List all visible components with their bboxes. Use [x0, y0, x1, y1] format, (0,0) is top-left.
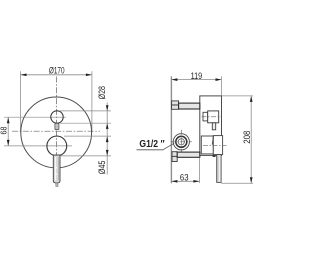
lever tip	[56, 183, 58, 187]
svg-text:Ø170: Ø170	[49, 65, 65, 75]
dim Ø170 extension line left	[20, 71, 22, 132]
svg-text:Ø28: Ø28	[97, 86, 107, 99]
dim Ø45 extension top	[64, 135, 111, 137]
top inlet fitting lower square	[172, 105, 179, 109]
lever shading ticks	[56, 167, 58, 168]
dim 119 extension right	[221, 76, 223, 96]
outlet port center line	[202, 116, 222, 118]
diverter knob circle Ø28	[51, 111, 63, 123]
dim 208 extension bottom	[221, 182, 253, 184]
dim Ø45 extension bottom	[60, 155, 111, 157]
G1/2 leader line	[137, 143, 175, 150]
dim Ø170 dimension line	[21, 74, 91, 76]
svg-text:Ø45: Ø45	[97, 161, 107, 175]
dim 63 dimension line	[171, 180, 199, 182]
lever inner shading lines	[54, 157, 56, 181]
lower pipe	[177, 152, 200, 157]
dim 119 arrow right	[216, 78, 222, 81]
shared vertical dimension line Ø28/Ø45	[106, 103, 108, 175]
dim 63 extension right	[198, 158, 200, 183]
dim Ø28 extension bottom	[59, 122, 111, 124]
G1/2 port outer circle	[173, 134, 189, 150]
dim Ø45 arrow up (inside)	[106, 136, 109, 142]
lever bar inner line	[217, 156, 219, 182]
outlet port connector rect	[203, 112, 208, 121]
handle hub polygon	[213, 136, 222, 155]
dim 208 dimension line	[250, 97, 252, 183]
dim 119 arrow left	[171, 78, 177, 81]
handle base circle Ø45	[47, 136, 67, 156]
outlet port stem	[212, 123, 215, 130]
cartridge cap rect	[201, 136, 213, 154]
G1/2 port middle ring	[176, 136, 187, 147]
dim Ø45 arrow down (inside)	[106, 150, 109, 156]
G1/2 port inner circle	[178, 139, 184, 145]
dim 119 dimension line	[172, 79, 221, 81]
outlet port square	[208, 111, 219, 123]
dim Ø170 extension line right	[91, 71, 93, 132]
68 dim bottom extension line / handle center line	[4, 145, 72, 147]
G1/2 port vertical center line	[180, 130, 182, 155]
dim 68 dimension line	[7, 117, 9, 146]
horizontal center line	[12, 130, 100, 132]
svg-text:208: 208	[242, 131, 252, 144]
vertical center line	[55, 77, 57, 187]
lever (front)	[53, 155, 60, 183]
svg-text:63: 63	[180, 173, 189, 183]
body box	[200, 96, 222, 155]
68 dim top extension line / knob center line	[4, 116, 66, 118]
dim 63 arrow right	[193, 180, 199, 183]
dim 63 arrow left	[171, 180, 177, 183]
G1/2 port horizontal center line	[171, 141, 192, 143]
svg-text:119: 119	[191, 71, 203, 81]
dim 208 arrow up	[250, 96, 253, 102]
wall plate edge line	[170, 76, 172, 183]
handle hub slant line	[212, 136, 213, 145]
lever pivot notch	[213, 155, 216, 157]
dim 208 arrow down	[250, 177, 253, 183]
handle center line	[203, 144, 227, 146]
top inlet fitting upper square	[172, 101, 179, 105]
dim Ø170 arrow right	[86, 73, 92, 76]
top pipe	[179, 103, 200, 109]
knob stem	[55, 123, 59, 129]
dim 68 arrow up	[7, 117, 10, 123]
dim Ø28 extension top	[60, 110, 111, 112]
lower inlet fitting upper square	[172, 152, 177, 157]
plate circle Ø170	[21, 97, 92, 168]
lower inlet fitting lower square	[172, 156, 177, 161]
svg-text:68: 68	[0, 126, 8, 134]
dim Ø170 arrow left	[21, 73, 27, 76]
dim Ø28 arrow up (outside below)	[106, 123, 109, 129]
dim Ø28 arrow down (outside above)	[106, 105, 109, 111]
lever bar (side)	[217, 155, 221, 183]
svg-text:G1/2 ″: G1/2 ″	[139, 139, 164, 150]
dim 208 extension top	[222, 95, 254, 97]
dim 68 arrow down	[7, 140, 10, 146]
